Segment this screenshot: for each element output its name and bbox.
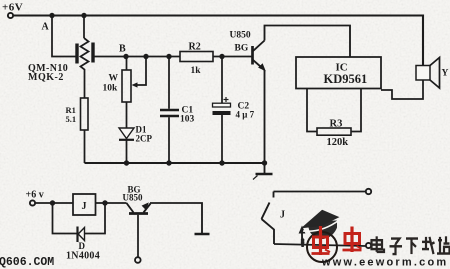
svg-text:103: 103: [180, 115, 195, 125]
wiper arrow: [132, 82, 138, 87]
wire base to terminal: [137, 215, 139, 257]
svg-text:D: D: [79, 241, 86, 251]
resistor R3 120k: [317, 119, 351, 149]
wire lower supply: [35, 202, 73, 204]
gas sensor QM-N10 right plate: [91, 43, 94, 63]
resistor R2 1k: [180, 42, 213, 77]
watermark text dianzi xiazaizhan: [372, 236, 450, 254]
junction relay right: [102, 200, 107, 205]
relay contact arm: [262, 203, 270, 220]
junction C1 bus: [166, 160, 171, 165]
wire IC out to speaker bottom: [381, 80, 423, 99]
char dian: [372, 236, 385, 252]
wire wiper: [135, 57, 146, 86]
IC KD9561: [296, 57, 381, 89]
diode D 1N4004 branch: [53, 203, 106, 262]
wire IC pin left to R3: [307, 89, 317, 132]
svg-text:R2: R2: [189, 42, 201, 53]
wire D1 to bus: [126, 140, 128, 163]
junction wiper: [143, 54, 148, 59]
relay contact J top wire: [274, 191, 366, 193]
wire potentiometer bottom to D1: [126, 102, 128, 128]
terminal contact top: [366, 189, 371, 194]
wire sensor right plate to node B and R2: [93, 56, 180, 58]
wire heater top: [83, 16, 85, 39]
node A junction: [49, 13, 54, 18]
char zai: [422, 237, 435, 254]
svg-text:5.1: 5.1: [66, 114, 77, 124]
terminal +6V top-left: [2, 2, 23, 19]
wire node A down to sensor left plate: [52, 16, 76, 57]
gas sensor QM-N10 heater coil: [81, 38, 89, 73]
svg-text:W: W: [109, 74, 119, 84]
watermark bug char 1: [312, 226, 331, 255]
junction C1 top: [166, 54, 171, 59]
svg-text:1k: 1k: [191, 66, 202, 76]
transistor Q1 BG U850: [253, 41, 266, 72]
ground main: [253, 163, 273, 180]
ground lower: [195, 233, 210, 236]
potentiometer W 10k: [103, 70, 132, 102]
wire collector rail to IC: [265, 26, 351, 58]
svg-text:Y: Y: [442, 69, 449, 79]
svg-text:B: B: [119, 44, 126, 55]
svg-text:4 μ 7: 4 μ 7: [236, 110, 255, 120]
wire emitter to ground lower: [150, 203, 202, 233]
speaker Y: [416, 58, 449, 89]
svg-text:R3: R3: [330, 119, 343, 130]
char zhan: [437, 236, 450, 253]
arrow on contact wire: [299, 226, 306, 245]
wire emitter down: [264, 70, 266, 163]
char zi: [390, 239, 403, 255]
svg-text:J: J: [82, 201, 87, 212]
junction D1 bus: [124, 160, 129, 165]
transistor Q2 BG U850: [127, 202, 151, 213]
svg-text:+6V: +6V: [2, 2, 23, 14]
svg-text:10k: 10k: [103, 84, 119, 94]
resistor R1: [66, 98, 89, 130]
watermark bug char 2: [343, 227, 362, 253]
svg-text:1N4004: 1N4004: [66, 251, 100, 262]
svg-text:+6 v: +6 v: [26, 190, 44, 201]
wire IC pin right to R3: [351, 89, 361, 132]
transistor BG U850 labels: [230, 31, 251, 54]
terminal +6v lower: [26, 190, 44, 206]
junction emitter bus: [262, 160, 267, 165]
relay coil J: [73, 194, 96, 215]
svg-text:2CP: 2CP: [136, 134, 153, 144]
junction heater top: [81, 13, 86, 18]
svg-text:U850: U850: [123, 193, 143, 203]
junction C2 top: [219, 54, 224, 59]
terminal base input: [135, 257, 141, 263]
svg-text:Q606.COM: Q606.COM: [0, 256, 54, 269]
svg-text:www.eeworm.com: www.eeworm.com: [321, 257, 448, 269]
wire ground bus: [85, 162, 265, 164]
wire top supply rail: [13, 16, 423, 66]
junction C2 bus: [219, 160, 224, 165]
label QM-N10 MQK-2: [28, 63, 68, 83]
junction lower left: [50, 200, 55, 205]
node B junction: [123, 54, 128, 59]
watermark graduation cap: [301, 210, 340, 247]
svg-text:A: A: [42, 22, 50, 33]
diode D1 2CP: [119, 125, 152, 144]
transistor Q2 BG U850 labels: [123, 185, 143, 203]
svg-text:MQK-2: MQK-2: [28, 72, 64, 83]
svg-text:BG: BG: [235, 44, 249, 54]
watermark red circle: [307, 232, 337, 262]
wire R1 bottom: [84, 130, 86, 163]
svg-text:J: J: [280, 210, 285, 221]
capacitor C2 4u7 electrolytic: [213, 57, 255, 164]
wire node B to potentiometer: [126, 57, 128, 71]
terminal contact bottom: [366, 243, 371, 248]
char xia: [406, 239, 418, 255]
wire contact bottom: [274, 244, 366, 246]
svg-text:KD9561: KD9561: [324, 72, 368, 86]
wire relay to transistor: [96, 202, 127, 204]
wire heater bottom to R1: [84, 73, 86, 99]
svg-text:U850: U850: [230, 31, 251, 41]
svg-text:120k: 120k: [327, 137, 349, 148]
wire R2 to transistor base: [213, 56, 252, 58]
gas sensor QM-N10 left plate: [75, 44, 78, 64]
capacitor C1 103: [160, 57, 195, 164]
